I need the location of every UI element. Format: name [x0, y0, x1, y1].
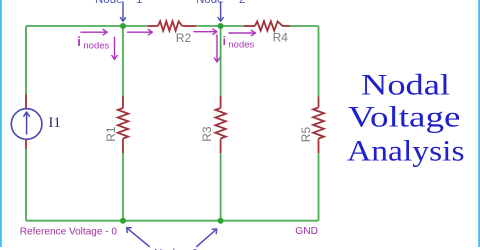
- svg-text:Node: Node: [95, 0, 123, 6]
- svg-text:I1: I1: [48, 115, 61, 131]
- svg-text:R5: R5: [299, 127, 313, 143]
- svg-text:R4: R4: [273, 31, 289, 45]
- svg-text:R1: R1: [104, 126, 118, 142]
- svg-text:Nodal: Nodal: [361, 69, 450, 102]
- svg-text:Reference Voltage - 0: Reference Voltage - 0: [20, 226, 118, 237]
- svg-text:1: 1: [136, 0, 142, 6]
- svg-text:R3: R3: [200, 126, 214, 142]
- svg-text:i: i: [223, 34, 226, 48]
- svg-text:Analysis: Analysis: [347, 134, 465, 167]
- svg-text:2: 2: [239, 0, 245, 6]
- svg-text:GND: GND: [295, 226, 318, 237]
- svg-text:i: i: [77, 34, 81, 49]
- svg-text:R2: R2: [176, 31, 192, 45]
- svg-text:nodes: nodes: [228, 39, 254, 50]
- svg-text:Node: Node: [196, 0, 224, 6]
- svg-text:nodes: nodes: [83, 40, 109, 51]
- svg-text:Voltage: Voltage: [348, 101, 460, 134]
